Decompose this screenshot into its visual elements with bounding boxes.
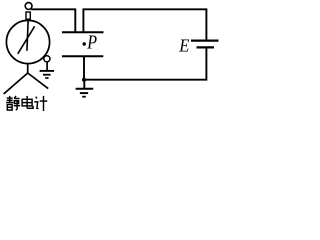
- electrometer insulator block: [26, 12, 30, 19]
- svg-text:P: P: [86, 33, 97, 54]
- wire: bottom plate down to ground junction: [83, 56, 85, 79]
- battery E short plate (negative): [197, 46, 215, 48]
- electrometer rod: [27, 20, 28, 51]
- junction dot: [82, 78, 86, 82]
- electrometer ground terminal knob: [44, 56, 50, 62]
- 电: [26, 96, 28, 108]
- electrometer needle: [18, 26, 35, 54]
- wire: electrometer terminal to top plate left lead: [31, 9, 75, 32]
- electrometer stand: [4, 64, 49, 94]
- 静 right 争: [14, 96, 16, 98]
- electrometer case circle: [6, 20, 49, 63]
- battery E long plate (positive): [191, 39, 219, 41]
- ground (electrometer case): [40, 62, 55, 78]
- electrometer terminal knob: [25, 3, 32, 10]
- 计 left 讠: [36, 97, 37, 99]
- node P dot: [83, 42, 86, 45]
- label 静电计 (vector strokes): [6, 96, 47, 111]
- ground (below capacitor junction): [76, 80, 94, 97]
- wire: top plate right lead along top to battery: [83, 9, 206, 40]
- 静 left 青: [7, 97, 13, 99]
- capacitor top plate: [62, 31, 104, 33]
- svg-text:E: E: [178, 36, 189, 56]
- wire: bottom return from junction to battery negative: [84, 47, 206, 79]
- capacitor bottom plate: [62, 55, 103, 57]
- 计 right 十: [40, 100, 48, 102]
